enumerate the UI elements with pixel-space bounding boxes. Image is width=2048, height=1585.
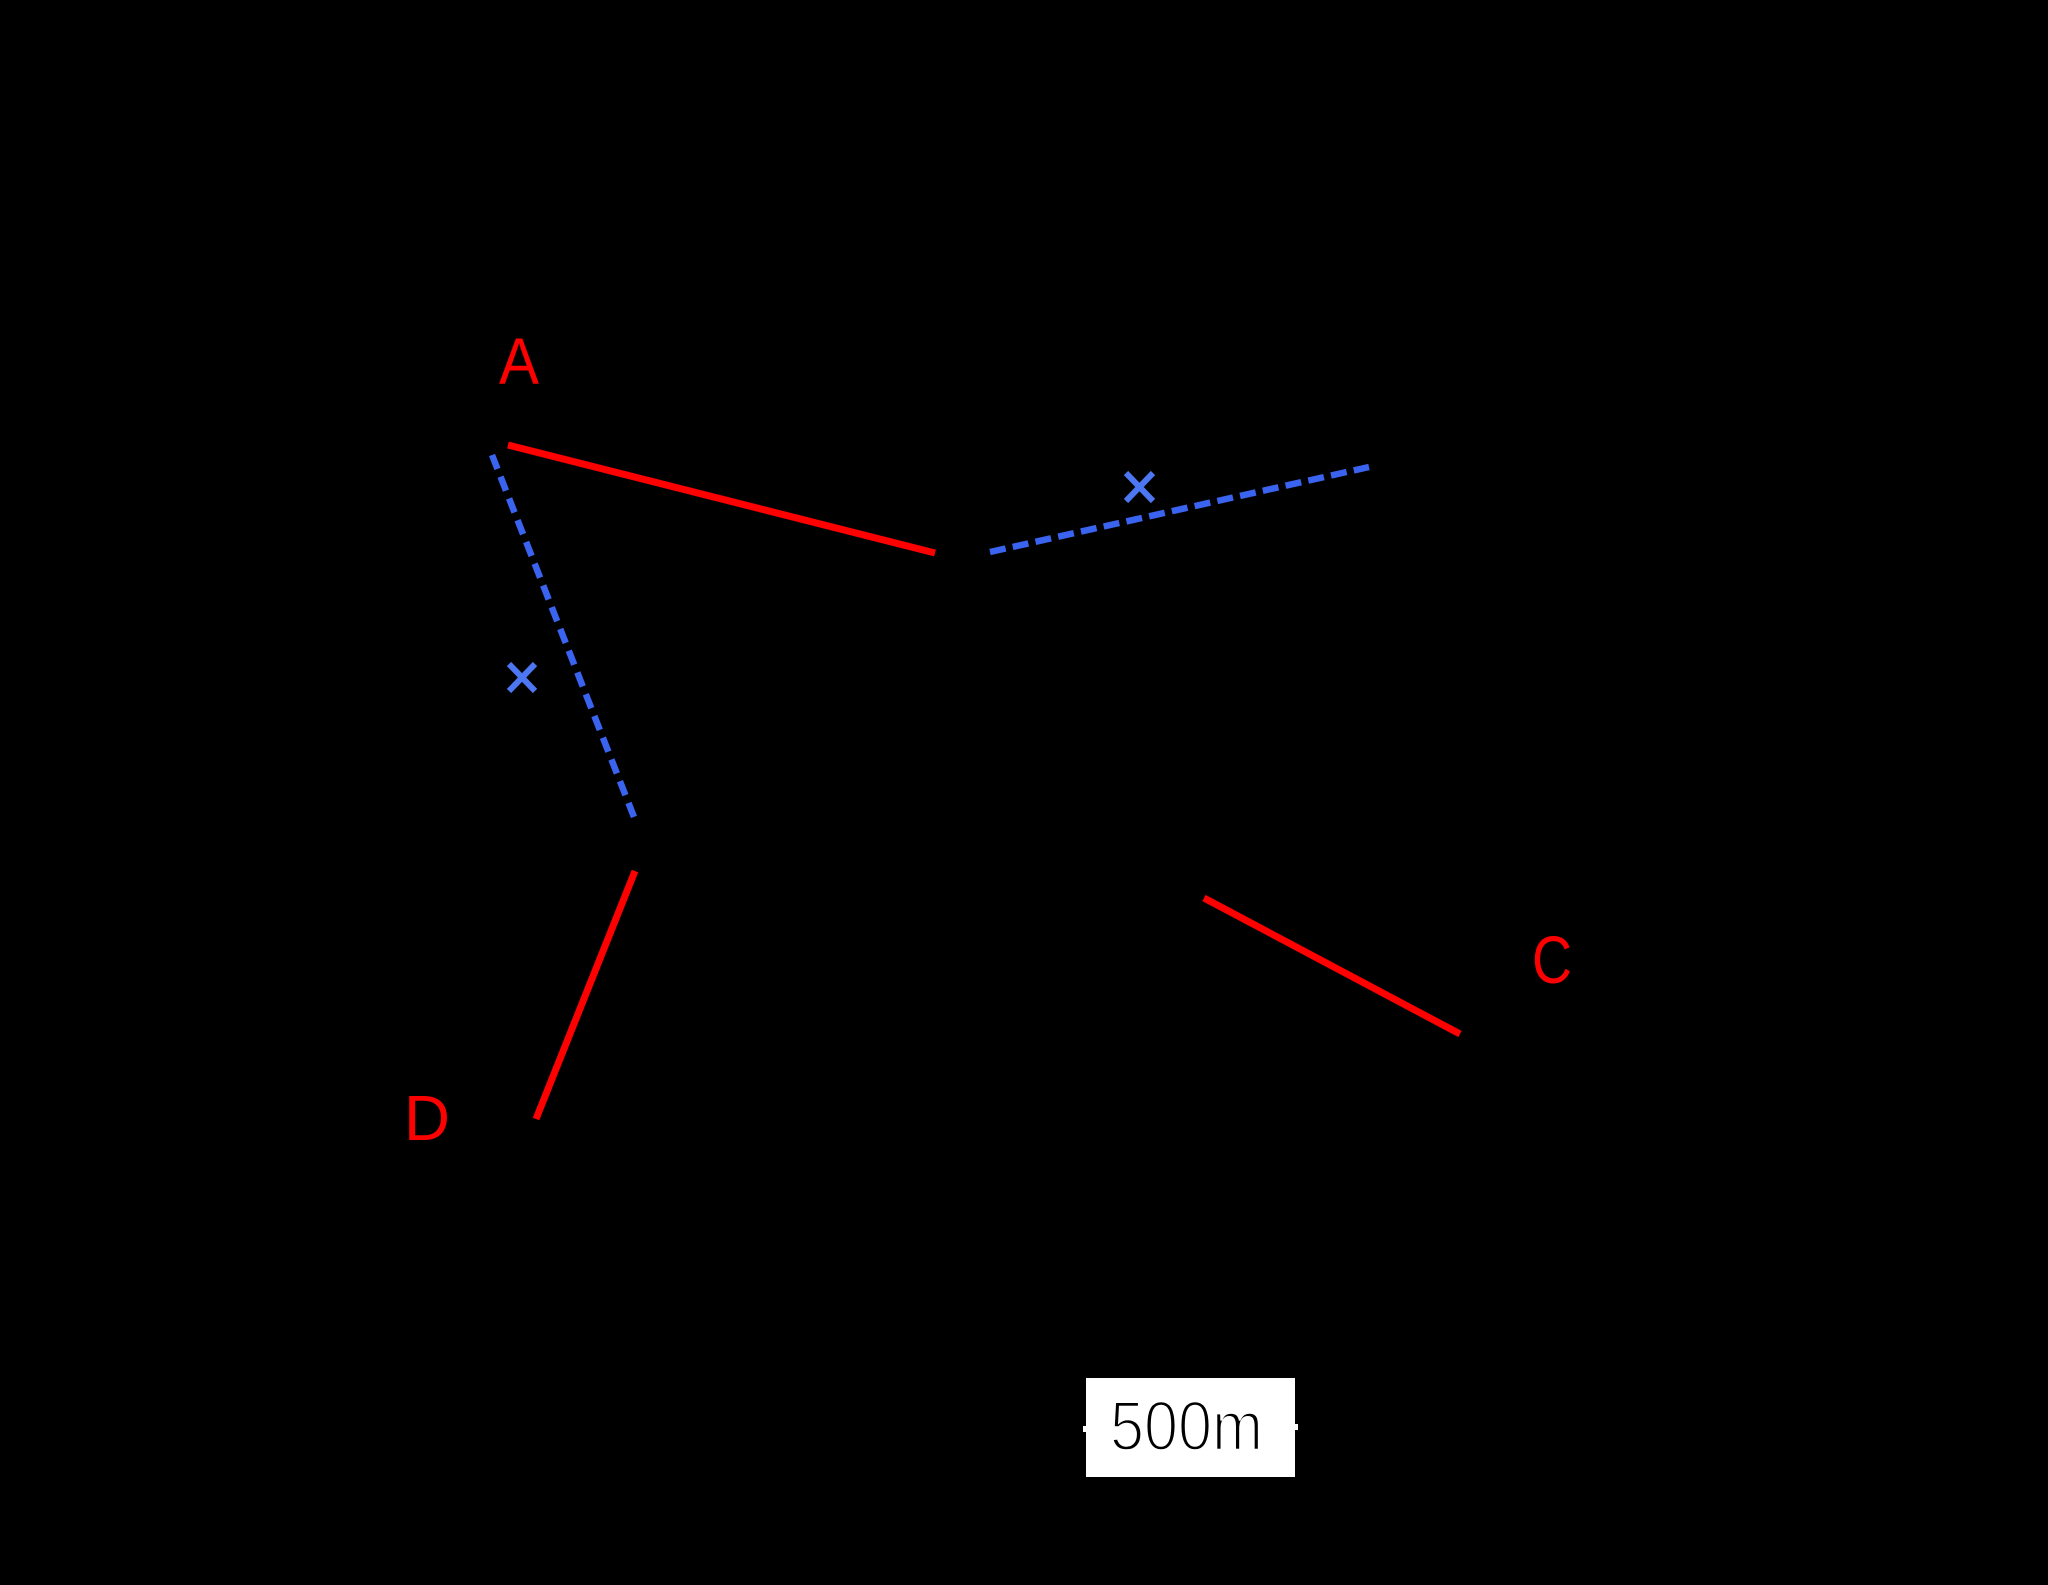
red segment A (point A to path bend): [508, 445, 935, 553]
red segment D: [536, 871, 635, 1119]
svg-text:A: A: [499, 324, 539, 398]
X mark left: [509, 664, 535, 691]
blue dashed line upper right: [990, 467, 1369, 552]
blue dashed line from A down to D bend: [492, 455, 634, 817]
X mark upper: [1126, 473, 1153, 501]
svg-text:500m: 500m: [1110, 1387, 1263, 1465]
scale bar left nub: [1083, 1426, 1086, 1432]
red segment C: [1204, 898, 1460, 1034]
scale bar right nub: [1295, 1424, 1298, 1430]
svg-text:C: C: [1532, 923, 1572, 998]
scale bar white box: [1086, 1378, 1295, 1477]
svg-text:D: D: [404, 1082, 450, 1154]
